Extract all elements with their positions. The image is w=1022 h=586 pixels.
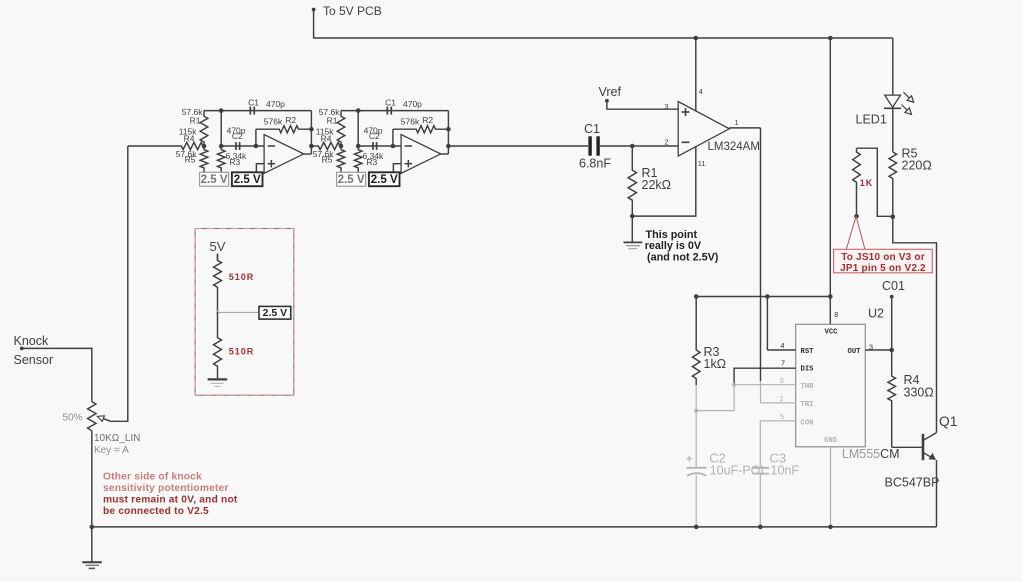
svg-text:R4: R4	[321, 134, 332, 144]
svg-text:576k: 576k	[401, 116, 420, 126]
svg-text:10uF-POL: 10uF-POL	[710, 463, 768, 477]
svg-text:R5: R5	[322, 155, 333, 165]
svg-text:510R: 510R	[229, 347, 255, 357]
svg-text:5: 5	[780, 412, 784, 421]
svg-text:DIS: DIS	[801, 365, 815, 373]
svg-text:C1: C1	[248, 97, 259, 107]
svg-text:510R: 510R	[229, 272, 255, 282]
svg-text:2.5 V: 2.5 V	[263, 307, 288, 319]
svg-text:1K: 1K	[860, 178, 874, 188]
svg-text:470p: 470p	[403, 99, 422, 109]
svg-text:R3: R3	[229, 157, 240, 167]
svg-text:VCC: VCC	[825, 329, 839, 337]
svg-text:JP1 pin 5 on V2.2: JP1 pin 5 on V2.2	[840, 263, 926, 274]
svg-text:Other side of knock: Other side of knock	[103, 472, 202, 483]
svg-text:C1: C1	[385, 97, 396, 107]
svg-text:sensitivity potentiometer: sensitivity potentiometer	[103, 483, 229, 494]
svg-text:R4: R4	[184, 134, 195, 144]
svg-text:R1: R1	[190, 115, 201, 125]
svg-text:LM555CM: LM555CM	[842, 447, 900, 461]
svg-text:Q1: Q1	[939, 414, 957, 429]
svg-text:1: 1	[735, 118, 739, 127]
svg-text:3: 3	[664, 102, 668, 111]
svg-text:To 5V PCB: To 5V PCB	[323, 4, 382, 18]
svg-text:2.5 V: 2.5 V	[371, 174, 398, 186]
svg-text:RST: RST	[801, 348, 815, 356]
svg-text:GND: GND	[824, 437, 838, 445]
svg-text:10KΩ_LIN: 10KΩ_LIN	[94, 433, 140, 444]
svg-text:+: +	[686, 454, 692, 466]
svg-text:C2: C2	[369, 131, 380, 141]
svg-text:470p: 470p	[266, 99, 285, 109]
svg-text:C1: C1	[584, 122, 600, 136]
svg-text:2: 2	[780, 394, 784, 403]
svg-text:2.5 V: 2.5 V	[338, 174, 365, 186]
svg-text:6: 6	[780, 376, 784, 385]
svg-text:4: 4	[699, 87, 703, 96]
svg-text:1kΩ: 1kΩ	[704, 357, 727, 371]
svg-text:LED1: LED1	[856, 113, 887, 127]
svg-text:R2: R2	[422, 115, 433, 125]
svg-text:must remain at 0V, and not: must remain at 0V, and not	[103, 495, 238, 506]
svg-text:576k: 576k	[264, 116, 283, 126]
svg-text:Key = A: Key = A	[94, 445, 129, 456]
svg-text:To JS10 on V3 or: To JS10 on V3 or	[841, 252, 925, 263]
svg-text:Sensor: Sensor	[14, 353, 54, 367]
svg-text:(and not 2.5V): (and not 2.5V)	[647, 251, 719, 263]
svg-text:50%: 50%	[63, 413, 83, 424]
svg-text:R2: R2	[285, 115, 296, 125]
svg-text:22kΩ: 22kΩ	[642, 178, 672, 192]
svg-text:330Ω: 330Ω	[904, 386, 934, 400]
svg-text:be connected to V2.5: be connected to V2.5	[103, 506, 209, 517]
svg-text:R3: R3	[366, 157, 377, 167]
svg-text:C01: C01	[882, 279, 905, 293]
svg-text:C2: C2	[232, 131, 243, 141]
svg-text:Knock: Knock	[14, 334, 49, 348]
svg-text:U2: U2	[868, 307, 884, 321]
svg-text:10nF: 10nF	[771, 463, 800, 477]
svg-text:OUT: OUT	[848, 348, 862, 356]
svg-text:BC547BP: BC547BP	[885, 476, 940, 490]
svg-text:220Ω: 220Ω	[902, 159, 932, 173]
svg-text:THR: THR	[801, 383, 815, 391]
svg-text:Vref: Vref	[599, 85, 622, 99]
svg-text:R5: R5	[185, 155, 196, 165]
svg-text:2: 2	[664, 138, 668, 147]
svg-text:6.8nF: 6.8nF	[579, 157, 611, 171]
svg-text:4: 4	[781, 341, 785, 350]
svg-text:8: 8	[834, 310, 838, 319]
svg-text:2.5 V: 2.5 V	[201, 174, 228, 186]
svg-text:2.5 V: 2.5 V	[234, 174, 261, 186]
svg-text:5V: 5V	[210, 239, 226, 254]
svg-text:CON: CON	[801, 419, 814, 427]
svg-text:TRI: TRI	[801, 401, 814, 409]
svg-text:11: 11	[698, 159, 706, 168]
svg-text:LM324AM: LM324AM	[708, 141, 760, 153]
svg-text:7: 7	[781, 359, 785, 368]
svg-text:R1: R1	[327, 115, 338, 125]
